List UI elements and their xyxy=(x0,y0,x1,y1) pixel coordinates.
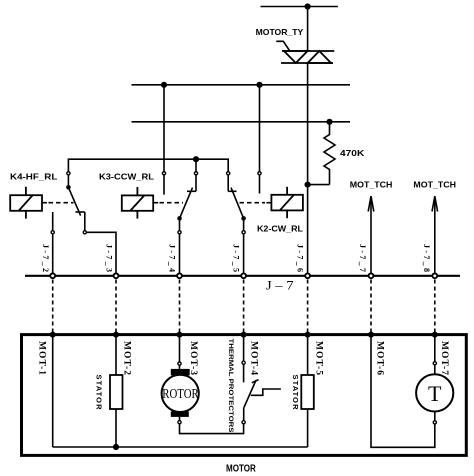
wire K2 common to bus pin J-7_5 xyxy=(243,218,245,230)
node MOT-5 on motor box xyxy=(305,332,311,338)
svg-text:STATOR: STATOR xyxy=(291,375,300,411)
svg-text:J – 7: J – 7 xyxy=(266,279,294,293)
wire resistor bottom to main vertical xyxy=(308,184,330,186)
wire rail1 drop to K2 right throw xyxy=(259,85,261,172)
node MOT-3 on motor box xyxy=(177,332,183,338)
svg-text:MOT_TCH: MOT_TCH xyxy=(350,180,393,190)
wire MOT-5 to stator right xyxy=(307,335,309,375)
wire MOT-3 to rotor xyxy=(179,335,181,362)
wire triac gate lead xyxy=(276,41,290,51)
wire internal bottom rail xyxy=(53,446,308,448)
thermal protector bottom terminal xyxy=(242,421,245,424)
node junction rail2 resistor tap xyxy=(326,119,332,125)
rotor top brush xyxy=(171,369,190,376)
relay coil K2 xyxy=(271,187,303,218)
switch contact K4 xyxy=(67,172,70,175)
wire main vertical to bus pin J-7_6 xyxy=(307,185,309,276)
pin J-7_7 xyxy=(369,273,374,278)
wire K4 right throw to bus pin J-7_3 xyxy=(83,231,86,234)
node MOT-1 on motor box xyxy=(50,332,56,338)
stator winding left xyxy=(110,375,123,409)
thermal protector contact blade xyxy=(244,380,256,407)
pin J-7_2 xyxy=(50,273,55,278)
svg-text:MOTOR_TY: MOTOR_TY xyxy=(256,27,304,37)
svg-text:MOTOR: MOTOR xyxy=(226,463,256,474)
svg-text:MOT-2: MOT-2 xyxy=(122,341,132,375)
node MOT-7 on motor box xyxy=(432,332,438,338)
svg-text:K2-CW_RL: K2-CW_RL xyxy=(257,223,303,233)
dashed link K2 coil to contact xyxy=(266,202,271,204)
wire MOT-4 to thermal protector xyxy=(243,335,245,361)
thermal element step xyxy=(251,389,281,395)
relay coil K4 xyxy=(10,187,42,219)
pin J-7_4 xyxy=(177,273,182,278)
svg-text:ROTOR: ROTOR xyxy=(162,386,199,401)
wire MOT-2 to stator xyxy=(115,335,117,375)
rotor bottom brush xyxy=(171,411,189,417)
triac MOTOR_TY xyxy=(281,51,334,63)
svg-text:MOT-5: MOT-5 xyxy=(313,341,323,375)
wire MOT-6 tach loop xyxy=(371,335,435,448)
node junction rail1 left xyxy=(161,82,167,88)
arrow MOT_TCH to bus pin J-7_7 xyxy=(370,197,372,276)
node junction resistor to vertical xyxy=(305,182,311,188)
wire rail1 drop to K3 left throw xyxy=(163,85,165,172)
wire stator right bottom xyxy=(307,409,309,447)
wire MOT-7 to tach xyxy=(434,335,436,362)
arrow MOT_TCH to bus pin J-7_8 xyxy=(434,197,436,276)
svg-text:K4-HF_RL: K4-HF_RL xyxy=(10,171,57,181)
node MOT-2 on motor box xyxy=(113,332,119,338)
svg-text:T: T xyxy=(428,381,442,406)
dashed wire bus to MOT-3 xyxy=(179,280,181,333)
dashed wire bus to MOT-4 xyxy=(243,280,245,333)
dashed wire bus to MOT-2 xyxy=(115,280,117,333)
svg-text:MOT_TCH: MOT_TCH xyxy=(413,180,456,190)
svg-text:MOT-7: MOT-7 xyxy=(439,341,449,375)
wire top rail xyxy=(261,6,339,8)
svg-text:MOT-4: MOT-4 xyxy=(248,341,258,375)
dashed link K3 coil to contact xyxy=(153,202,158,204)
wire main vertical triac to resistor node xyxy=(307,63,309,185)
pin J-7_3 xyxy=(114,273,119,278)
dashed wire bus to MOT-7 xyxy=(434,280,436,333)
pin J-7_8 xyxy=(432,273,437,278)
relay coil K3 xyxy=(122,187,153,219)
dashed wire bus to MOT-5 xyxy=(307,280,309,333)
svg-text:K3-CCW_RL: K3-CCW_RL xyxy=(99,172,154,182)
switch contact K3 xyxy=(162,172,165,175)
wire K4 left throw to bus pin J-7_2 xyxy=(52,212,54,231)
resistor 470K xyxy=(324,122,335,185)
node junction rail1 right xyxy=(256,82,262,88)
bus J-7 xyxy=(25,275,460,277)
switch contact K2 xyxy=(227,172,230,175)
tachometer T body xyxy=(416,374,453,411)
svg-text:470K: 470K xyxy=(340,148,365,158)
rotor top terminal xyxy=(178,362,181,365)
node MOT-4 on motor box xyxy=(241,332,247,338)
node junction stator1 bottom xyxy=(113,444,119,450)
wire K3 common to bus pin J-7_4 xyxy=(179,218,181,230)
wire MOT-1 to bottom rail xyxy=(52,335,54,447)
wire rotor to thermal protector xyxy=(180,424,244,434)
dashed link K4 coil to contact xyxy=(42,202,47,204)
svg-text:MOT-1: MOT-1 xyxy=(37,341,47,375)
pin J-7_5 xyxy=(241,273,246,278)
stator winding right xyxy=(301,375,314,409)
wire stator left bottom xyxy=(115,409,117,447)
node junction switch rail xyxy=(193,156,199,162)
wire switch common rail xyxy=(68,159,228,171)
wire horizontal rail 2 xyxy=(132,121,351,123)
pin J-7_6 xyxy=(305,273,310,278)
wire stub to K3 right throw xyxy=(195,159,197,171)
tach top terminal xyxy=(433,362,436,365)
node MOT-6 on motor box xyxy=(368,332,374,338)
dashed wire bus to MOT-6 xyxy=(370,280,372,333)
thermal protector top terminal xyxy=(242,361,245,364)
rotor bottom terminal xyxy=(178,421,181,424)
rotor body xyxy=(162,375,199,412)
svg-text:THERMAL PROTECTORS: THERMAL PROTECTORS xyxy=(227,339,234,434)
tach bottom terminal xyxy=(433,421,436,424)
dashed wire bus to MOT-1 xyxy=(52,280,54,333)
wire main vertical MT2 to triac xyxy=(307,7,309,52)
svg-text:STATOR: STATOR xyxy=(94,375,103,411)
node junction on top rail xyxy=(305,3,311,9)
motor enclosure box xyxy=(22,335,467,456)
svg-text:MOT-6: MOT-6 xyxy=(375,341,385,375)
wire horizontal rail 1 xyxy=(132,84,351,86)
